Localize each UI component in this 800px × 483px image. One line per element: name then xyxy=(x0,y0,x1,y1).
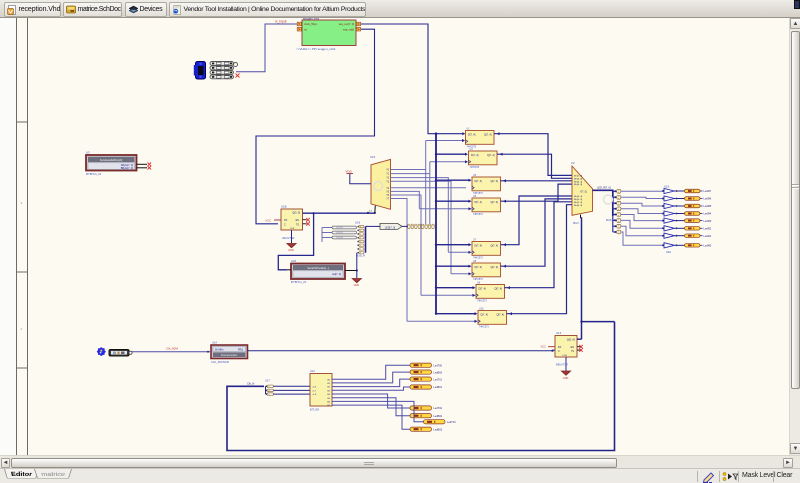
svg-text:Q[7..4]: Q[7..4] xyxy=(490,266,498,269)
svg-text:D[7..4]: D[7..4] xyxy=(481,314,489,317)
svg-text:D[7..4]: D[7..4] xyxy=(475,245,483,248)
svg-text:U12: U12 xyxy=(310,369,315,373)
svg-text:Clk_50M: Clk_50M xyxy=(166,347,178,351)
svg-text:U15: U15 xyxy=(370,155,376,159)
svg-text:out[7..0]: out[7..0] xyxy=(332,273,341,276)
svg-text:74HC573: 74HC573 xyxy=(473,214,483,216)
svg-text:LedR2: LedR2 xyxy=(704,227,712,231)
svg-text:LedB01: LedB01 xyxy=(434,386,443,389)
svg-text:74HC573: 74HC573 xyxy=(470,167,480,169)
svg-text:VCC: VCC xyxy=(266,218,272,222)
svg-text:LedB02: LedB02 xyxy=(434,415,443,418)
svg-text:BIn[4..4]: BIn[4..4] xyxy=(574,184,583,186)
svg-text:CLR: CLR xyxy=(563,355,568,357)
svg-text:U13: U13 xyxy=(556,331,562,335)
svg-text:MUX: MUX xyxy=(573,221,579,225)
svg-text:D[7..4]: D[7..4] xyxy=(475,180,483,183)
svg-text:rx_Input: rx_Input xyxy=(275,20,287,24)
svg-text:D[7..4]: D[7..4] xyxy=(475,201,483,204)
svg-text:cLS: cLS xyxy=(313,394,317,396)
svg-text:LedR7: LedR7 xyxy=(704,189,712,193)
svg-text:LED[7..0]: LED[7..0] xyxy=(385,226,396,229)
svg-text:TS: TS xyxy=(296,224,299,227)
svg-text:D[7..4]: D[7..4] xyxy=(468,134,476,137)
svg-text:U16: U16 xyxy=(664,184,670,188)
svg-text:BIn[7..4]: BIn[7..4] xyxy=(574,176,583,178)
svg-text:CLR: CLR xyxy=(290,228,295,230)
svg-text:D[7..4]: D[7..4] xyxy=(479,288,487,291)
svg-text:SendparallelByte[0]: SendparallelByte[0] xyxy=(100,158,123,162)
svg-text:Q[3..4]: Q[3..4] xyxy=(567,337,575,341)
svg-text:LedT02: LedT02 xyxy=(434,407,443,410)
svg-text:RX: RX xyxy=(284,219,288,222)
svg-text:Y[7..0]: Y[7..0] xyxy=(580,192,587,194)
svg-text:Q[7..4]: Q[7..4] xyxy=(484,134,492,137)
svg-text:LedT03: LedT03 xyxy=(447,421,456,424)
svg-text:BYBITxx_IN: BYBITxx_IN xyxy=(86,172,101,176)
svg-text:U10: U10 xyxy=(479,307,484,310)
svg-text:OE1: OE1 xyxy=(666,251,672,254)
svg-text:clock_50px: clock_50px xyxy=(304,22,318,26)
svg-text:LedR5: LedR5 xyxy=(704,204,712,208)
svg-text:74HC573: 74HC573 xyxy=(479,326,489,328)
svg-text:FRQ: FRQ xyxy=(238,349,243,352)
svg-text:BIn[5..4]: BIn[5..4] xyxy=(574,181,583,183)
svg-text:Q[3..0]: Q[3..0] xyxy=(292,211,300,215)
svg-text:seq_vec[7..0]: seq_vec[7..0] xyxy=(339,22,355,26)
svg-text:LedR0: LedR0 xyxy=(704,244,712,248)
svg-text:Q[7..4]: Q[7..4] xyxy=(490,245,498,248)
svg-text:BIn[6..4]: BIn[6..4] xyxy=(574,178,583,180)
svg-text:U20: U20 xyxy=(291,259,297,263)
svg-text:BIn[3..4]: BIn[3..4] xyxy=(574,196,583,198)
svg-text:VDD: VDD xyxy=(346,170,353,174)
svg-text:EN: EN xyxy=(571,346,575,349)
svg-text:LedR4: LedR4 xyxy=(704,212,712,216)
svg-text:EN: EN xyxy=(296,219,300,222)
svg-text:LedT01: LedT01 xyxy=(434,378,443,381)
svg-text:LedB03: LedB03 xyxy=(434,428,443,431)
svg-text:CLK_DIVISOR: CLK_DIVISOR xyxy=(211,360,229,364)
svg-text:BIn[0..4]: BIn[0..4] xyxy=(574,205,583,207)
svg-text:Q[7..4]: Q[7..4] xyxy=(490,180,498,183)
svg-text:Clk_N: Clk_N xyxy=(247,381,254,385)
svg-text:BUS_R: BUS_R xyxy=(606,218,615,222)
svg-text:rst: rst xyxy=(304,27,307,31)
svg-text:U1B: U1B xyxy=(281,205,287,209)
svg-text:Q[7..4]: Q[7..4] xyxy=(487,154,495,157)
svg-text:REUVTSR: REUVTSR xyxy=(283,237,295,240)
svg-text:cLK: cLK xyxy=(313,386,317,388)
svg-text:GND: GND xyxy=(563,377,569,380)
svg-text:Q[7..4]: Q[7..4] xyxy=(494,288,502,291)
svg-text:LED_R[7..0]: LED_R[7..0] xyxy=(597,187,611,190)
svg-text:REUVTSR: REUVTSR xyxy=(556,364,568,367)
svg-text:Freq Generator: Freq Generator xyxy=(221,354,238,357)
svg-text:LedR3: LedR3 xyxy=(704,219,712,223)
svg-text:seqgen.Vhd: seqgen.Vhd xyxy=(303,18,319,20)
svg-text:74HC573: 74HC573 xyxy=(477,300,487,302)
svg-text:GND: GND xyxy=(354,284,360,287)
svg-text:D[7..4]: D[7..4] xyxy=(471,154,479,157)
svg-text:U19: U19 xyxy=(355,220,361,224)
svg-text:VCC: VCC xyxy=(541,345,547,349)
svg-text:TS: TS xyxy=(571,350,574,353)
svg-text:LedB00: LedB00 xyxy=(434,371,443,374)
svg-text:LedR1: LedR1 xyxy=(704,234,712,238)
svg-text:SerialToParallel[...]: SerialToParallel[...] xyxy=(307,266,329,270)
svg-text:GND: GND xyxy=(288,249,294,252)
svg-text:Q[7..4]: Q[7..4] xyxy=(496,314,504,317)
svg-text:<<VHDL>>.PPr seqgen_vclrk: <<VHDL>>.PPr seqgen_vclrk xyxy=(296,47,336,51)
svg-text:LedR6: LedR6 xyxy=(704,197,712,201)
svg-text:U14: U14 xyxy=(212,341,217,345)
svg-text:BIn[2..4]: BIn[2..4] xyxy=(574,199,583,201)
svg-text:BIT_EN: BIT_EN xyxy=(310,407,319,411)
svg-text:LedT00: LedT00 xyxy=(434,364,443,367)
svg-text:C: C xyxy=(284,224,286,227)
svg-text:50 MHz: 50 MHz xyxy=(215,349,224,352)
svg-text:BYBITxx_IN: BYBITxx_IN xyxy=(291,280,306,284)
svg-text:U2: U2 xyxy=(571,161,575,165)
svg-text:RX: RX xyxy=(558,346,562,349)
svg-text:C: C xyxy=(558,350,560,353)
svg-text:U3: U3 xyxy=(86,151,90,155)
svg-text:D[7..4]: D[7..4] xyxy=(475,266,483,269)
svg-text:Q[7..4]: Q[7..4] xyxy=(490,201,498,204)
svg-text:BIn[1..4]: BIn[1..4] xyxy=(574,202,583,204)
svg-text:seq_valid: seq_valid xyxy=(343,27,355,31)
svg-text:U17: U17 xyxy=(265,378,270,382)
svg-text:BUS_R: BUS_R xyxy=(356,254,365,258)
svg-text:BByte[7..0]: BByte[7..0] xyxy=(121,167,134,170)
